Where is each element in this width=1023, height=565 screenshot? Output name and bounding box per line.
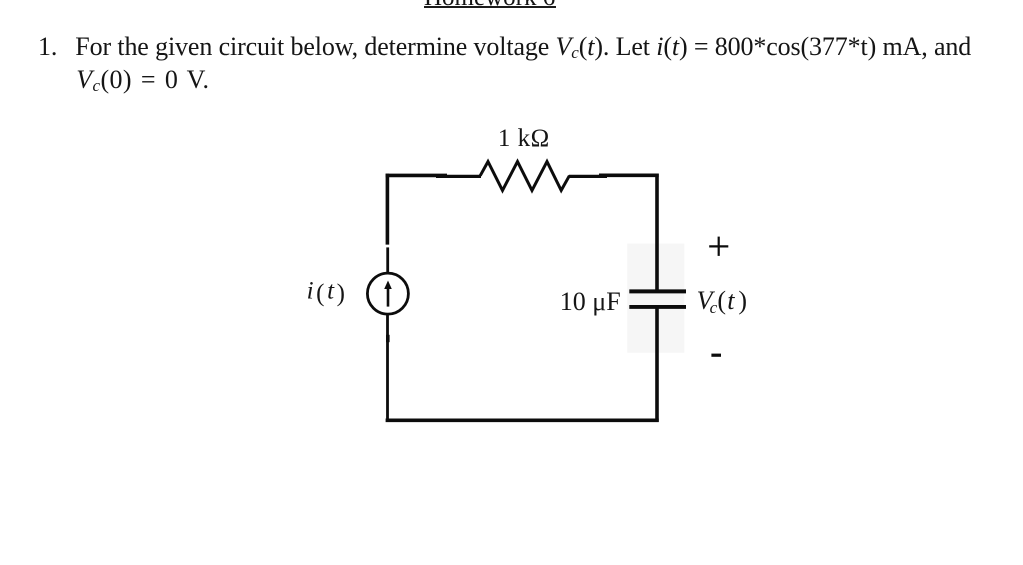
wire: right vertical upper (to capacitor) [655,174,659,290]
resistor R (1 kOhm) zigzag [480,162,569,191]
capacitor bottom plate [629,305,686,309]
capacitor top plate [629,289,686,293]
svg-text:1 kΩ: 1 kΩ [498,125,550,152]
wire: top-right horizontal to corner [599,174,659,178]
wire: right vertical lower (from capacitor) [655,308,659,422]
current source arrow shaft [387,289,390,307]
problem statement text [38,30,971,96]
minus sign (polarity -) [711,354,721,357]
wire: left vertical upper segment [386,174,390,245]
wire: left vertical below source [386,314,389,420]
plus sign (polarity +) [709,245,728,247]
current source arrow head [384,281,392,290]
svg-text:10 μF: 10 μF [560,287,621,316]
wire: top horizontal overlap segment to resistor [436,175,481,178]
page title "Homework 6" (cut off at top) [424,0,555,10]
wire: overlap tick below source [386,335,390,342]
capacitor highlight box [627,244,684,353]
svg-text:i(t): i(t) [307,277,348,307]
wire: top-left horizontal segment [386,174,447,178]
title underline [424,6,556,8]
wire: left vertical short segment above source [386,247,389,274]
svg-text:Vc(t): Vc(t) [697,286,747,317]
current source circle [367,273,408,314]
wire: top-right horizontal from resistor [569,175,607,178]
wire: bottom horizontal [386,418,659,422]
